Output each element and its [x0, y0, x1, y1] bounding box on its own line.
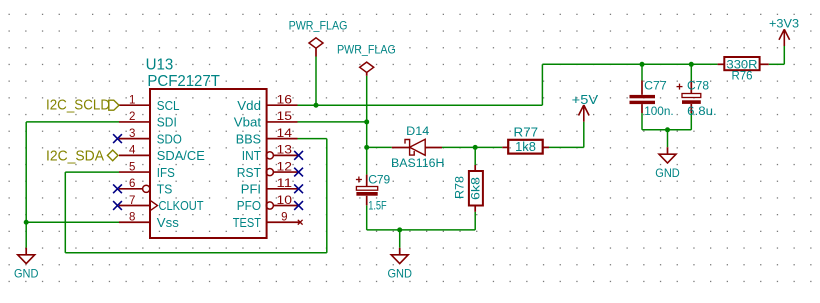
pin 4 (SDA/CE) left side of U13 [119, 145, 205, 163]
capacitor C79 (1.5F) polarized [356, 173, 391, 213]
wire into pin14 BBS [298, 138, 327, 140]
wire R76 to +3V3 [769, 63, 785, 65]
svg-text:SDI: SDI [157, 116, 177, 130]
svg-text:R77: R77 [514, 126, 539, 140]
svg-text:16: 16 [277, 95, 293, 107]
wire C78 top [690, 64, 692, 80]
junction D14 node [364, 145, 369, 150]
junction top rail C77 [640, 62, 645, 67]
ground symbol GND (left) [14, 248, 39, 281]
junction Vbat node [364, 119, 369, 124]
svg-text:Vbat: Vbat [234, 116, 262, 130]
pin 11 (PFI) right side of U13 [241, 178, 298, 196]
wire PWR_FLAG2 vertical down to C79 [366, 76, 368, 175]
svg-text:GND: GND [655, 166, 680, 180]
wire right vertical up to pin14 [326, 139, 328, 253]
hierarchical label I2C_SDA [46, 148, 118, 164]
svg-text:+5V: +5V [572, 93, 599, 107]
svg-text:9: 9 [281, 212, 287, 224]
pin 9 (TEST) right side of U13 [233, 212, 303, 230]
wire D14 anode node to diode [367, 146, 392, 148]
wire junction down to R78 [474, 147, 476, 165]
svg-text:PWR_FLAG: PWR_FLAG [289, 19, 348, 33]
svg-text:SDA/CE: SDA/CE [157, 149, 205, 163]
pin 5 (IFS) left side of U13 [119, 161, 175, 179]
wire bottom rail C79 to R78 [367, 229, 476, 231]
svg-text:GND: GND [14, 267, 39, 281]
svg-text:SDO: SDO [157, 132, 182, 146]
pin 16 (Vdd) right side of U13 [237, 95, 297, 113]
resistor R78 (6k8) vertical [453, 165, 483, 212]
wire C77 top [641, 64, 643, 80]
wire left vertical down to GND junction [25, 122, 27, 222]
svg-text:Vdd: Vdd [237, 99, 261, 113]
capacitor C77 (100n) [630, 79, 674, 119]
power flag PWR_FLAG #1 [289, 19, 348, 106]
wire R77 to +5V [549, 146, 584, 148]
svg-text:PFI: PFI [241, 183, 261, 197]
svg-text:1.5F: 1.5F [368, 198, 387, 212]
junction bottom rail GND [397, 227, 402, 232]
svg-text:2: 2 [129, 111, 135, 123]
svg-text:BBS: BBS [236, 132, 261, 146]
capacitor C78 (6.8u) polarized [677, 79, 717, 119]
svg-text:4: 4 [129, 145, 136, 157]
no-connect flag on pin 6 [113, 184, 122, 193]
svg-text:11: 11 [277, 178, 293, 190]
svg-text:R78: R78 [453, 176, 467, 199]
ground symbol GND (middle) [387, 248, 412, 281]
ground symbol GND (right) [655, 147, 680, 180]
pin 2 (SDI) left side of U13 [119, 111, 177, 129]
diode D14 (BAS116H) Schottky [391, 126, 444, 170]
wire junction down to GND symbol [25, 222, 27, 248]
svg-text:100n.: 100n. [644, 104, 674, 118]
svg-text:I2C_SDA: I2C_SDA [46, 148, 104, 164]
wire diode to R77 [442, 146, 502, 148]
power flag PWR_FLAG #2 [337, 43, 396, 76]
wire Vdd pin16 to corner [298, 104, 543, 106]
svg-text:C79: C79 [368, 173, 390, 187]
junction top rail C78 [689, 62, 694, 67]
wire pin15 Vbat to PWR_FLAG2 node [298, 121, 367, 123]
svg-text:15: 15 [277, 111, 293, 123]
svg-text:13: 13 [277, 145, 293, 157]
svg-text:INT: INT [242, 149, 262, 163]
pin 14 (BBS) right side of U13 [236, 128, 298, 146]
no-connect flag on pin 13 [294, 151, 303, 160]
svg-text:PCF2127T: PCF2127T [147, 73, 220, 90]
svg-text:TEST: TEST [233, 216, 262, 230]
svg-text:7: 7 [129, 195, 135, 207]
pin 3 (SDO) left side of U13 [119, 128, 182, 146]
svg-text:GND: GND [387, 267, 412, 281]
svg-text:I2C_SCLD: I2C_SCLD [46, 97, 110, 113]
svg-text:Vss: Vss [157, 216, 179, 230]
wire corner up to top rail [541, 64, 543, 105]
pin 1 (SCL) left side of U13 [119, 95, 180, 113]
svg-text:D14: D14 [406, 126, 430, 138]
pin 10 (PFO) right side of U13 [237, 195, 298, 213]
wire top rail to R76 [542, 63, 717, 65]
svg-text:U13: U13 [146, 56, 174, 73]
wire junction down to GND [667, 130, 669, 147]
svg-text:BAS116H: BAS116H [391, 158, 444, 170]
svg-text:14: 14 [277, 128, 293, 140]
wire R78 bottom to rail [474, 212, 476, 230]
svg-text:TS: TS [157, 183, 173, 197]
junction C77-C78 GND [665, 127, 670, 132]
hierarchical label I2C_SCLD [46, 97, 119, 113]
pin 12 (RST) right side of U13 [237, 161, 298, 179]
pin 6 (TS) left side of U13 [119, 178, 172, 196]
wire IFS vertical down [64, 172, 66, 253]
svg-text:12: 12 [277, 161, 293, 173]
svg-text:R76: R76 [732, 68, 753, 82]
wire pin5 IFS leftward [65, 171, 119, 173]
svg-text:3: 3 [129, 128, 135, 140]
svg-text:8: 8 [129, 212, 135, 224]
wire C77 bottom [641, 113, 643, 130]
svg-text:5: 5 [129, 161, 135, 173]
wire C78 bottom [690, 113, 692, 130]
resistor R76 (330R) [718, 57, 769, 82]
junction R78 top node [473, 145, 478, 150]
pin 15 (Vbat) right side of U13 [234, 111, 298, 129]
svg-text:+3V3: +3V3 [769, 17, 799, 31]
no-connect flag on pin 3 [113, 134, 122, 143]
power symbol +3V3 [769, 17, 799, 47]
no-connect flag on pin 10 [294, 201, 303, 210]
svg-text:C77: C77 [644, 79, 667, 93]
no-connect flag on pin 12 [294, 168, 303, 177]
wire pin2 SDI to left vertical [26, 121, 119, 123]
svg-text:SCL: SCL [157, 99, 180, 113]
wire +5V riser [583, 122, 585, 148]
no-connect flag on pin 11 [294, 184, 303, 193]
power symbol +5V [572, 93, 599, 122]
IC U13 PCF2127T body [146, 56, 267, 238]
svg-text:1k8: 1k8 [515, 140, 536, 154]
pin 8 (Vss) left side of U13 [119, 212, 179, 230]
svg-text:IFS: IFS [157, 166, 175, 180]
svg-text:6k8: 6k8 [469, 177, 483, 200]
svg-text:1: 1 [129, 95, 135, 107]
svg-text:RST: RST [237, 166, 262, 180]
resistor R77 (1k8) [502, 126, 549, 154]
wire C79 bottom vertical [366, 205, 368, 230]
junction Vdd / PWR_FLAG1 [314, 103, 319, 108]
pin 13 (INT) right side of U13 [242, 145, 298, 163]
wire junction down to GND symbol [399, 230, 401, 248]
svg-text:10: 10 [277, 195, 293, 207]
wire bottom horizontal IFS loop [65, 252, 327, 254]
svg-text:CLKOUT: CLKOUT [159, 199, 204, 213]
wire junction to pin8 Vss [26, 221, 119, 223]
wire +3V3 riser [783, 46, 785, 64]
svg-text:6: 6 [129, 178, 135, 190]
svg-text:C78: C78 [687, 79, 709, 93]
junction at left GND node [24, 220, 29, 225]
svg-text:PWR_FLAG: PWR_FLAG [337, 43, 396, 57]
no-connect flag on pin 7 [113, 201, 122, 210]
wire bottom rail C77-C78 [642, 129, 691, 131]
pin 7 (CLKOUT) left side of U13 [119, 195, 204, 213]
svg-text:6.8u.: 6.8u. [687, 104, 717, 118]
svg-text:PFO: PFO [237, 199, 261, 213]
